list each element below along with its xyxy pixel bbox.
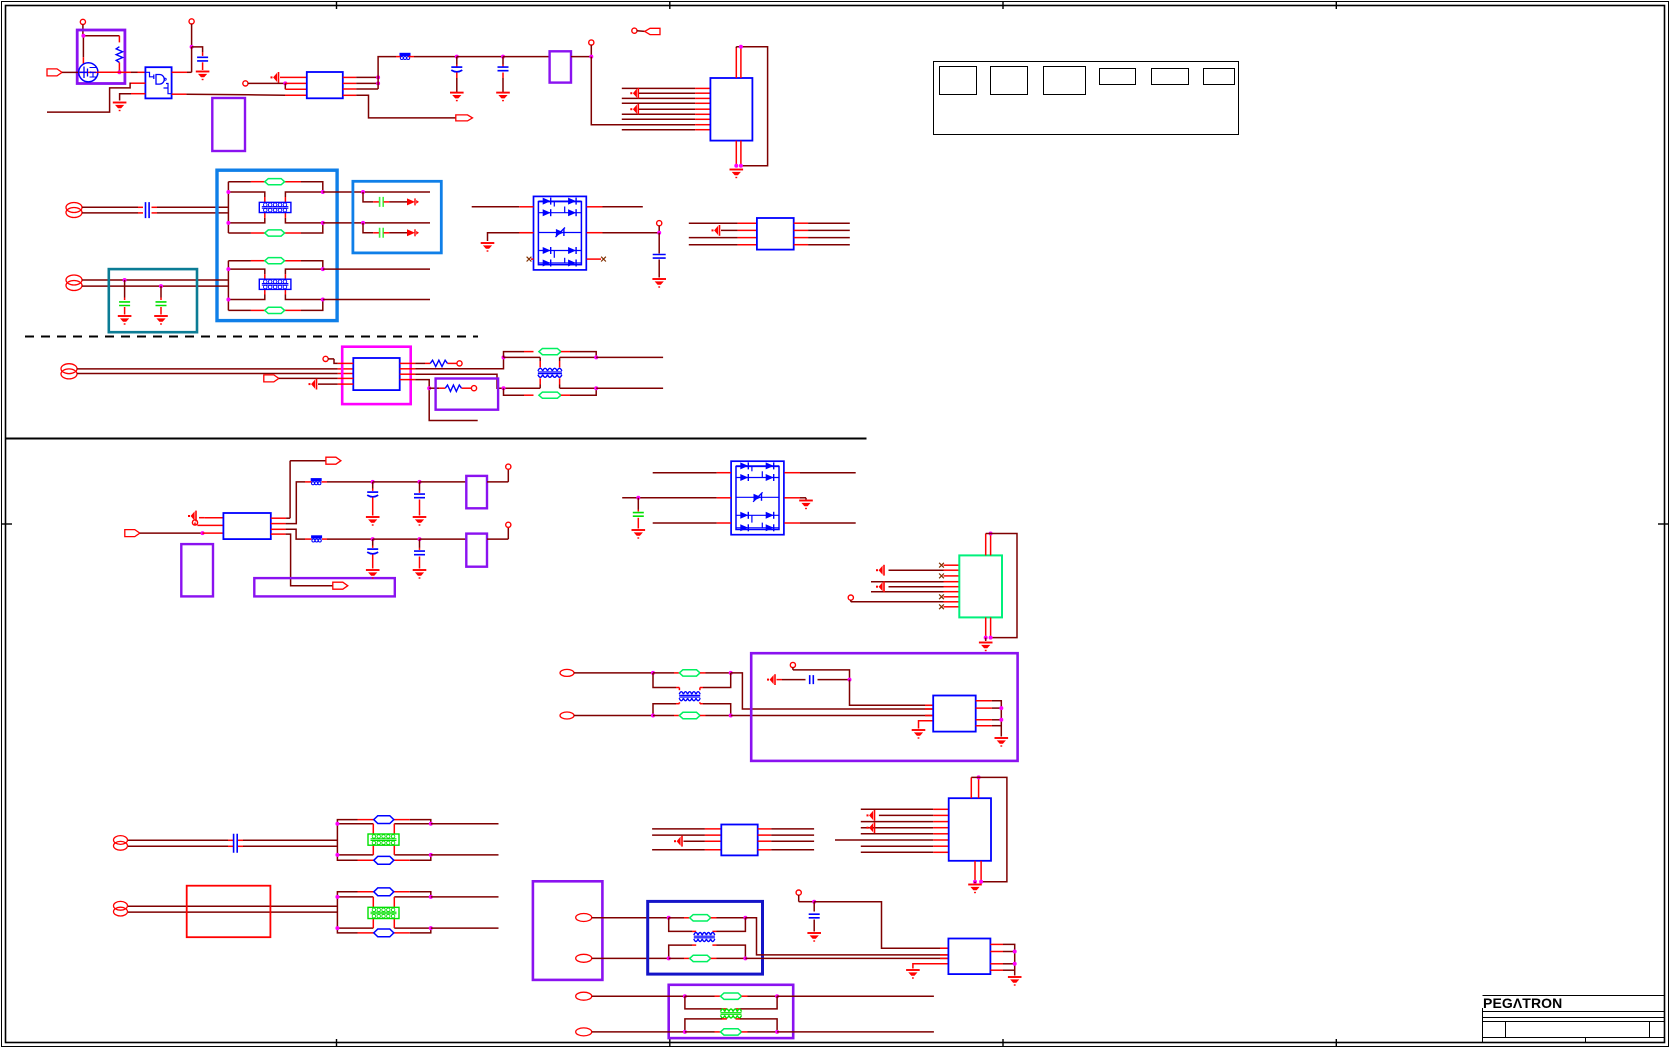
emi box F bbox=[217, 170, 337, 320]
wire U6 out3 bbox=[400, 374, 504, 388]
component box Y bbox=[669, 985, 794, 1038]
wire P5b bbox=[128, 845, 337, 847]
wire K2 in4 bbox=[689, 244, 757, 246]
ic U11 top pins bbox=[971, 777, 978, 798]
ground G3 bbox=[450, 93, 464, 102]
node U11 top bbox=[977, 775, 981, 779]
wire T out4 bbox=[758, 849, 814, 851]
wire P5a bbox=[128, 839, 337, 841]
power flag R3 bbox=[471, 386, 476, 391]
wire P row1 riser bbox=[289, 461, 291, 519]
magnetics X oval bottom bbox=[690, 955, 746, 961]
power flag VCC2 bbox=[189, 19, 194, 47]
off-page marker U11b bbox=[867, 822, 875, 833]
component box W red bbox=[187, 886, 271, 938]
ic U7 box bbox=[223, 513, 270, 539]
wire U7 out2 bbox=[271, 482, 312, 524]
resistor R3 bbox=[445, 385, 471, 391]
capacitor C1 bbox=[197, 52, 208, 70]
revision table cell 5 bbox=[1152, 69, 1189, 85]
off-page marker S bbox=[767, 674, 806, 685]
wire U6 out1 bbox=[400, 362, 431, 364]
port P8a bbox=[576, 992, 685, 1000]
tvs box G bbox=[353, 181, 441, 253]
PEGATRON logo bbox=[1483, 995, 1562, 1011]
wire K out3 bbox=[343, 88, 378, 90]
capacitor C3 bbox=[498, 67, 509, 92]
wire U7 out4 bbox=[271, 534, 333, 586]
wire U4 top loop bbox=[736, 47, 767, 166]
node U8 bottom bbox=[984, 636, 993, 641]
wire M top bbox=[504, 357, 597, 367]
wire U11 loop bbox=[971, 777, 1007, 881]
wire M out2 bbox=[596, 387, 663, 389]
magnetics T1 upper bbox=[226, 179, 324, 237]
wire U9 out3 bbox=[976, 719, 1002, 721]
capacitor C15 series bbox=[810, 675, 850, 684]
node drain junction bbox=[117, 70, 121, 74]
node X bl bbox=[667, 956, 690, 960]
svg-text:PEGΛTRON: PEGΛTRON bbox=[1483, 995, 1562, 1011]
ground G6 bbox=[118, 316, 132, 325]
ground G8 bbox=[481, 243, 495, 252]
node U4 bottom bbox=[734, 164, 743, 168]
cap box teal bbox=[109, 269, 197, 332]
off-page marker U11a bbox=[867, 810, 875, 821]
wire K2 in1 bbox=[689, 222, 757, 224]
node Pin3 bbox=[201, 531, 224, 535]
wire T6 out1 bbox=[431, 896, 499, 898]
transformer T8 bbox=[721, 1009, 742, 1018]
wire DA2 mid bbox=[622, 498, 806, 500]
port P6 pair bbox=[114, 901, 128, 916]
port arrow A3 bbox=[125, 530, 203, 537]
wire row1 span bbox=[373, 481, 420, 483]
capacitor C8 series bbox=[380, 228, 384, 238]
revision table cell 6 bbox=[1204, 69, 1235, 85]
wire K in1 bbox=[280, 76, 307, 78]
wire U2 input C bbox=[120, 94, 146, 101]
wire Y xfmr top bbox=[685, 996, 777, 1009]
node U9 right bbox=[999, 706, 1003, 722]
power flag VCC1 bbox=[80, 19, 85, 35]
diode D1 bbox=[407, 198, 419, 205]
revision table cell 4 bbox=[1100, 69, 1136, 85]
node Y tl bbox=[683, 994, 721, 998]
capacitor C7 series bbox=[380, 197, 384, 207]
magnetics M oval top bbox=[539, 349, 596, 358]
node R3 tap bbox=[427, 386, 445, 390]
wire K out4 bbox=[343, 95, 456, 118]
wire T in2 bbox=[652, 834, 721, 836]
ground G4 bbox=[496, 93, 510, 102]
wire DA1 top bbox=[472, 206, 643, 208]
wire U2 top output bbox=[172, 71, 192, 73]
port arrow A6 bbox=[264, 375, 354, 382]
resistor box R3 bbox=[436, 379, 499, 410]
wire T1 out2 bbox=[323, 222, 430, 224]
node S br bbox=[729, 714, 934, 718]
port arrow A5 bbox=[333, 582, 348, 589]
ic U8 left pins bbox=[851, 563, 960, 609]
wire T1 out1 bbox=[323, 191, 430, 193]
wire U9 in1 bbox=[925, 704, 933, 706]
node S tl bbox=[651, 671, 679, 675]
node DA1 cap bbox=[657, 231, 661, 254]
wire K2 out1 bbox=[794, 222, 850, 224]
ferrite bead FB3 bbox=[311, 478, 373, 485]
component box FB5 bbox=[466, 476, 487, 508]
wire Pin1 bbox=[199, 517, 223, 519]
wire caps to box bbox=[503, 56, 550, 58]
wire U12 out4 bbox=[990, 964, 1014, 976]
wire Pin2 bbox=[197, 524, 223, 526]
node S tr bbox=[729, 671, 934, 709]
wire T in4 bbox=[652, 849, 721, 851]
ground G2 bbox=[196, 72, 210, 81]
wire S xfmr bottom bbox=[653, 702, 731, 715]
title block grid bbox=[1483, 996, 1665, 1043]
wire U6 out2 bbox=[400, 357, 504, 368]
off-page marker row1 bbox=[271, 72, 279, 83]
node G2a bbox=[361, 221, 379, 233]
port P7b bbox=[576, 954, 669, 962]
ic U12 gnd left bbox=[906, 964, 948, 979]
capacitor C5 bbox=[119, 302, 130, 315]
node S cap bbox=[848, 678, 934, 706]
wire P6a bbox=[128, 905, 337, 907]
off-page marker U6 bbox=[309, 379, 354, 390]
highlight box M bbox=[342, 347, 411, 404]
node X tl bbox=[667, 916, 690, 920]
ground G18 bbox=[968, 885, 982, 894]
power flag X bbox=[796, 890, 814, 902]
power flag row1 bbox=[506, 464, 511, 469]
solid section divider bbox=[6, 438, 867, 440]
wire U9 out1 bbox=[976, 701, 1002, 720]
capacitor C12 bbox=[367, 549, 378, 568]
node C12 tap bbox=[371, 537, 375, 548]
wire U12 out3 bbox=[990, 963, 1014, 965]
ground G11 bbox=[413, 517, 427, 526]
ferrite bead FB4 bbox=[311, 535, 373, 542]
wire DA2 top bbox=[653, 472, 856, 474]
revision table cell 1 bbox=[940, 67, 977, 95]
component box P long bbox=[254, 578, 394, 596]
port P4b bbox=[560, 712, 653, 719]
node U12 right bbox=[1013, 950, 1017, 966]
node M left top bbox=[502, 352, 534, 360]
wire U2 bottom output long bbox=[172, 93, 248, 96]
capacitor C10 bbox=[367, 492, 378, 515]
revision table outer box bbox=[934, 62, 1239, 135]
ground G5 bbox=[730, 170, 744, 179]
ic U10 box bbox=[721, 825, 757, 856]
capacitor C6 bbox=[156, 302, 167, 315]
wire U12 in1 bbox=[940, 947, 948, 949]
wire row1 out bbox=[487, 469, 508, 482]
node DA2 cap bbox=[636, 496, 640, 512]
wire caps span bbox=[457, 56, 503, 58]
wire K out1 bbox=[343, 76, 378, 78]
capacitor C13 bbox=[414, 551, 425, 568]
ic U8 box bbox=[959, 555, 1002, 617]
wire P3a bbox=[77, 368, 353, 370]
wire U7 out1 bbox=[271, 517, 290, 519]
component box FB6 bbox=[466, 534, 487, 567]
power flag DA1 bbox=[657, 221, 662, 233]
wire T5 out2 bbox=[431, 854, 499, 856]
capacitor C16 series pair bbox=[234, 834, 238, 853]
wire DA2 bottom bbox=[653, 522, 856, 524]
magnetics T2 lower bbox=[226, 258, 324, 314]
ground G17 bbox=[995, 738, 1009, 747]
transformer T4 bbox=[679, 692, 700, 701]
wire T in1 bbox=[652, 828, 721, 830]
power flag row2 bbox=[506, 522, 511, 527]
port P7a bbox=[576, 914, 669, 922]
wire T6 out2 bbox=[431, 927, 499, 929]
diode array DA1 bbox=[534, 196, 587, 270]
wire U9 in3 bbox=[925, 715, 933, 717]
wire port to mosfet bbox=[62, 71, 98, 73]
node X tr bbox=[743, 916, 948, 955]
wire T out3 bbox=[758, 840, 814, 842]
ic U3 box bbox=[307, 72, 343, 98]
wire P1b bbox=[82, 212, 228, 214]
wire row1 to box bbox=[420, 481, 467, 483]
ic U4 bottom pins bbox=[736, 141, 741, 168]
port P4a bbox=[560, 669, 653, 676]
ic U4 box bbox=[710, 78, 752, 141]
wire P3b bbox=[77, 373, 353, 375]
node S bl bbox=[651, 714, 679, 718]
gate U2 NAND symbol bbox=[145, 72, 171, 93]
ic U4 left pin wires bbox=[622, 88, 711, 129]
node C6 tap bbox=[159, 284, 163, 300]
wire M out1 bbox=[596, 356, 663, 358]
wire U9 out4 bbox=[976, 720, 1002, 737]
wire K2 in3 bbox=[689, 237, 757, 239]
port P5 pair bbox=[114, 836, 128, 851]
component box P left bbox=[181, 544, 213, 596]
power flag U6 bbox=[323, 356, 353, 363]
ic U11 box bbox=[949, 798, 991, 861]
ground G12 bbox=[366, 570, 380, 579]
node X cap bbox=[812, 900, 948, 949]
capacitor C2 bbox=[451, 67, 462, 92]
magnetics Y oval top bbox=[721, 993, 778, 999]
node C11 tap bbox=[418, 480, 422, 493]
net flag bottle bbox=[632, 28, 660, 34]
transformer T7 bbox=[694, 933, 715, 942]
wire U9 in2 bbox=[925, 708, 933, 710]
ic U8 bottom pins bbox=[986, 617, 991, 637]
off-page marker P1 bbox=[188, 511, 198, 526]
node U11 bottom bbox=[973, 880, 983, 884]
capacitor C9 bbox=[653, 255, 666, 278]
ground G19 bbox=[1008, 977, 1022, 986]
node K vertical riser bbox=[376, 57, 401, 89]
wire row2 to box bbox=[420, 538, 467, 540]
wire U12 in2 bbox=[940, 954, 948, 956]
wire gate loop bbox=[83, 36, 119, 64]
power flag K bbox=[243, 81, 286, 86]
wire U7 out3 bbox=[271, 529, 312, 539]
ferrite bead FB1 bbox=[400, 53, 411, 60]
wire P2b bbox=[82, 285, 228, 287]
node U4 top bbox=[739, 45, 743, 49]
ic U6 box bbox=[353, 358, 399, 390]
port P2 RJ pair2 bbox=[66, 275, 82, 291]
gate U2 NAND box bbox=[145, 67, 171, 98]
component group box U-PWR bbox=[77, 30, 125, 84]
node Y bl bbox=[683, 1030, 721, 1034]
wire box to junction bbox=[571, 56, 591, 58]
node C3 tap bbox=[501, 55, 505, 67]
wire Y xfmr bottom bbox=[685, 1019, 777, 1032]
resistor R2 bbox=[430, 360, 456, 366]
ic U8 top pins bbox=[986, 534, 991, 556]
power flag J1 bbox=[589, 40, 594, 57]
dashed section divider bbox=[25, 336, 478, 338]
wire X xfmr top bbox=[669, 918, 746, 932]
port input PWR_EN bbox=[47, 69, 62, 76]
ic U5 box bbox=[757, 218, 794, 250]
node Y br bbox=[775, 1030, 934, 1034]
node C2 tap bbox=[455, 55, 459, 67]
capacitor C17 bbox=[807, 902, 821, 942]
wire U12 out2 bbox=[990, 951, 1014, 953]
wire K in4 from U2 bbox=[248, 94, 307, 96]
emi box X bbox=[648, 901, 763, 974]
node M right bbox=[594, 355, 598, 390]
power flag S bbox=[790, 662, 849, 679]
magnetics M oval bottom bbox=[539, 388, 596, 398]
node M left bottom bbox=[502, 386, 534, 395]
off-page marker U8b bbox=[876, 581, 884, 592]
node gate junction bbox=[81, 34, 85, 38]
revision table cell 3 bbox=[1044, 67, 1086, 95]
transistor Q1 PMOS bbox=[79, 63, 98, 82]
wire K2 out4 bbox=[794, 244, 850, 246]
wire K out2 bbox=[343, 82, 378, 84]
off-page marker U8a bbox=[876, 565, 884, 576]
capacitor C14 bbox=[633, 513, 644, 529]
off-page marker E5 bbox=[630, 104, 638, 115]
magnetics T5 bbox=[335, 816, 432, 865]
ic U9 gnd left bbox=[912, 721, 934, 739]
ic U4 top pins bbox=[736, 47, 741, 78]
magnetics X oval top bbox=[690, 915, 746, 921]
wire T in3 bbox=[684, 840, 722, 842]
port P3 pair bbox=[61, 364, 77, 379]
node cap junction bbox=[190, 45, 203, 72]
transformer T3 bbox=[538, 368, 562, 377]
wire P1a bbox=[82, 206, 228, 208]
node Y tr bbox=[775, 994, 934, 998]
wire P2a bbox=[82, 279, 228, 281]
wire T out2 bbox=[758, 834, 814, 836]
wire K2 out2 bbox=[794, 229, 850, 231]
wire U12 in3 bbox=[940, 957, 948, 959]
wire P6b bbox=[128, 911, 337, 913]
ground G13 bbox=[413, 570, 427, 579]
node K in2 bbox=[283, 81, 307, 89]
ground G16 bbox=[979, 643, 993, 652]
resistor R1 bbox=[116, 47, 122, 73]
diode array DA2 bbox=[731, 461, 784, 535]
port output arrow A2 bbox=[456, 115, 473, 121]
port arrow A4 bbox=[290, 457, 341, 464]
component box S bbox=[751, 653, 1017, 761]
diode D2 bbox=[407, 229, 419, 236]
wire X xfmr bottom bbox=[669, 945, 746, 958]
wire T out1 bbox=[758, 828, 814, 830]
wire U8 loop bbox=[986, 534, 1017, 638]
port P1 RJ pair1 bbox=[66, 203, 82, 218]
ic U12 box bbox=[948, 939, 990, 975]
capacitor C4 series pair bbox=[146, 202, 150, 218]
magnetics S oval bottom bbox=[679, 712, 730, 718]
off-page marker E2 bbox=[630, 88, 638, 99]
wire T5 out1 bbox=[431, 823, 499, 825]
wire mosfet to gate U2 bbox=[98, 71, 146, 73]
power flag U8 bbox=[848, 595, 853, 602]
node J1 bbox=[589, 55, 695, 125]
magnetics T6 bbox=[335, 888, 432, 937]
node G1a bbox=[361, 190, 379, 202]
wire K2 out3 bbox=[794, 237, 850, 239]
wire U9 out2 bbox=[976, 707, 1002, 709]
power flag R2 bbox=[457, 361, 462, 366]
ground G7 bbox=[154, 316, 168, 325]
node C10 tap bbox=[371, 480, 375, 491]
wire M bottom bbox=[504, 378, 597, 388]
magnetics S oval top bbox=[679, 670, 730, 676]
wire U12 out1 bbox=[990, 944, 1014, 963]
wire row2 span bbox=[373, 538, 420, 540]
ic U9 box bbox=[933, 696, 976, 732]
off-page marker T3 bbox=[674, 836, 682, 847]
wire U2 input B elbow bbox=[47, 83, 145, 112]
component box FB2 bbox=[550, 51, 571, 82]
wire S xfmr top bbox=[653, 673, 731, 690]
wire row2 out bbox=[487, 527, 508, 539]
node U8 top bbox=[989, 532, 993, 536]
wire DA1 bottom bbox=[527, 257, 606, 262]
wire T2 out1 bbox=[323, 268, 430, 270]
wire T2 out2 bbox=[323, 299, 430, 301]
magnetics Y oval bottom bbox=[721, 1029, 778, 1035]
wire K2 in2 bbox=[721, 229, 757, 231]
wire DA1 mid bbox=[488, 233, 660, 241]
ground G1 bbox=[113, 103, 127, 112]
capacitor C11 bbox=[414, 494, 425, 515]
ground G15 bbox=[632, 530, 646, 539]
ic U11 bottom pins bbox=[975, 861, 981, 882]
node C5 tap bbox=[123, 278, 127, 300]
node C13 tap bbox=[418, 537, 422, 550]
revision table cell 2 bbox=[991, 67, 1028, 95]
component box X tall bbox=[533, 881, 603, 980]
port P8b bbox=[576, 1028, 685, 1036]
ground G14 bbox=[799, 501, 813, 510]
ground G10 bbox=[366, 517, 380, 526]
component box U2 aux bbox=[212, 98, 245, 151]
ic U11 left pins bbox=[835, 809, 949, 852]
node X br bbox=[743, 956, 948, 960]
